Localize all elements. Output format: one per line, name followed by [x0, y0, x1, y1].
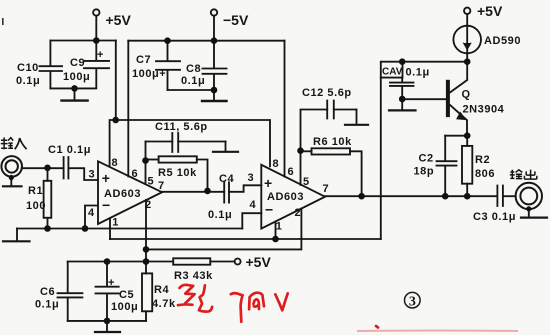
- svg-text:4: 4: [250, 199, 257, 211]
- svg-text:0.1μ: 0.1μ: [16, 75, 40, 87]
- svg-text:7: 7: [158, 180, 164, 192]
- svg-text:806: 806: [475, 168, 495, 180]
- svg-text:1: 1: [112, 217, 118, 229]
- svg-text:+5V: +5V: [246, 254, 272, 270]
- svg-text:−: −: [265, 202, 273, 218]
- svg-text:C7: C7: [136, 54, 151, 66]
- svg-text:5: 5: [148, 176, 154, 188]
- svg-text:+: +: [102, 170, 110, 186]
- svg-text:2: 2: [145, 199, 151, 211]
- svg-text:R6 10k: R6 10k: [313, 136, 352, 148]
- svg-text:2: 2: [295, 207, 301, 219]
- svg-text:R4: R4: [154, 284, 169, 296]
- svg-text:C6: C6: [40, 286, 55, 298]
- svg-text:C12 5.6p: C12 5.6p: [302, 87, 352, 99]
- svg-text:100μ: 100μ: [111, 301, 138, 313]
- svg-text:7: 7: [323, 183, 329, 195]
- svg-text:1: 1: [276, 221, 282, 233]
- svg-text:0.1μ: 0.1μ: [35, 299, 59, 311]
- svg-text:0.1μ: 0.1μ: [406, 67, 430, 79]
- svg-text:C9: C9: [70, 57, 85, 69]
- svg-text:0.1μ: 0.1μ: [208, 209, 232, 221]
- svg-text:100μ+: 100μ+: [132, 68, 166, 80]
- svg-text:+: +: [264, 175, 272, 191]
- svg-text:C4: C4: [219, 173, 234, 185]
- svg-text:C1 0.1μ: C1 0.1μ: [48, 144, 91, 156]
- svg-text:C11, 5.6p: C11, 5.6p: [155, 121, 208, 133]
- svg-text:4: 4: [88, 207, 95, 219]
- svg-text:100: 100: [26, 200, 46, 212]
- svg-text:R3 43k: R3 43k: [174, 270, 213, 282]
- svg-text:C5: C5: [119, 289, 134, 301]
- svg-text:6: 6: [288, 166, 294, 178]
- svg-text:AD590: AD590: [484, 35, 521, 47]
- svg-text:3: 3: [409, 295, 416, 310]
- svg-text:CAV: CAV: [382, 67, 403, 78]
- svg-text:3: 3: [89, 169, 95, 181]
- svg-text:6: 6: [132, 168, 138, 180]
- svg-text:2N3904: 2N3904: [463, 104, 505, 116]
- svg-text:5: 5: [303, 176, 309, 188]
- svg-text:C2: C2: [419, 153, 434, 165]
- svg-text:R2: R2: [475, 154, 490, 166]
- svg-text:R5 10k: R5 10k: [158, 167, 197, 179]
- svg-text:+: +: [97, 49, 104, 61]
- svg-text:18p: 18p: [414, 166, 435, 178]
- svg-text:3: 3: [248, 172, 254, 184]
- svg-text:−: −: [102, 197, 110, 213]
- svg-text:R1: R1: [28, 185, 43, 197]
- svg-text:C10: C10: [17, 62, 39, 74]
- svg-text:100μ: 100μ: [63, 71, 90, 83]
- svg-text:+5V: +5V: [106, 12, 132, 28]
- svg-text:C8: C8: [186, 63, 201, 75]
- svg-text:4.7k: 4.7k: [152, 298, 176, 310]
- svg-text:C3 0.1μ: C3 0.1μ: [473, 211, 516, 223]
- svg-text:0.1μ: 0.1μ: [181, 75, 205, 87]
- svg-text:+: +: [108, 277, 115, 289]
- svg-text:8: 8: [273, 158, 279, 170]
- svg-text:8: 8: [112, 157, 118, 169]
- svg-text:Q: Q: [462, 89, 471, 101]
- svg-text:−5V: −5V: [223, 12, 249, 28]
- svg-text:+5V: +5V: [477, 3, 503, 19]
